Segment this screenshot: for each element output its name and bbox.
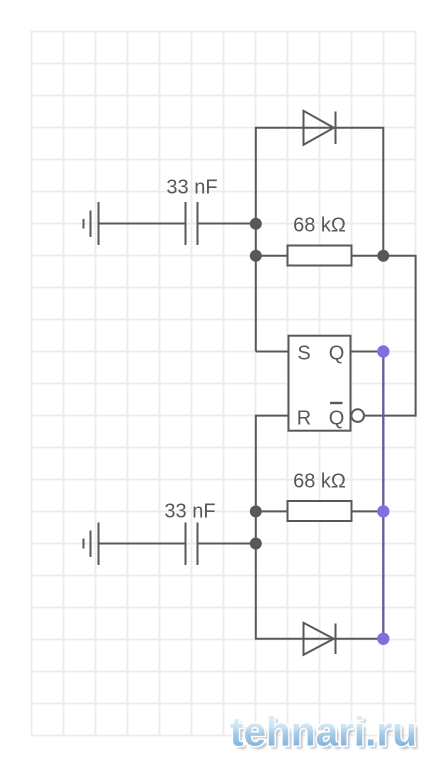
wire node C to R2 — [256, 510, 288, 512]
node F blue dot — [377, 633, 389, 645]
wire left column / top loop to diode row and down right to node B — [256, 128, 383, 352]
wire R2 to blue node — [352, 510, 384, 512]
source terminal E1 (top) — [84, 202, 99, 245]
wire Q output to blue node — [351, 351, 384, 353]
node E blue dot — [377, 505, 389, 517]
svg-text:33 nF: 33 nF — [164, 501, 215, 523]
source terminal E2 (bottom) — [84, 523, 99, 566]
svg-text:33 nF: 33 nF — [166, 177, 217, 199]
wire R1 to node B — [352, 255, 384, 257]
wire R input and bottom-left column to diode D2 row — [256, 416, 383, 639]
wire C2 to node D — [199, 543, 256, 545]
node B junction dot — [377, 250, 389, 262]
svg-text:Q: Q — [329, 343, 345, 365]
op: flip-flop U1 box — [289, 336, 351, 431]
wire highlighted blue net — [382, 352, 384, 639]
node C junction dot — [250, 505, 262, 517]
node A2 junction dot — [250, 250, 262, 262]
wire node A2 to R1 — [256, 255, 288, 257]
diode D1 — [304, 111, 336, 145]
node Q blue dot — [377, 345, 389, 357]
svg-text:68 kΩ: 68 kΩ — [293, 215, 346, 237]
wire node B to Qbar loop — [364, 256, 415, 416]
svg-text:68 kΩ: 68 kΩ — [293, 470, 346, 492]
resistor R1 body — [288, 246, 352, 266]
svg-text:R: R — [297, 407, 311, 429]
svg-text:S: S — [297, 343, 310, 365]
diode D2 — [304, 623, 336, 655]
wire C1 to node A — [199, 223, 256, 225]
grid background — [31, 31, 416, 736]
wire E2 to C2 — [99, 543, 185, 545]
pin label Qbar overline — [330, 402, 343, 404]
capacitor C2 plates — [186, 523, 198, 566]
svg-text:tehnari.ru: tehnari.ru — [230, 709, 417, 755]
node A junction dot — [250, 218, 262, 230]
watermark tehnari.ru — [230, 709, 420, 758]
wire S input — [256, 351, 289, 353]
wire E1 to C1 — [99, 223, 185, 225]
Qbar inverter circle — [351, 409, 364, 422]
node D junction dot — [250, 538, 262, 550]
capacitor C1 plates — [186, 202, 198, 245]
svg-text:Q: Q — [329, 407, 345, 429]
resistor R2 body — [288, 501, 352, 521]
